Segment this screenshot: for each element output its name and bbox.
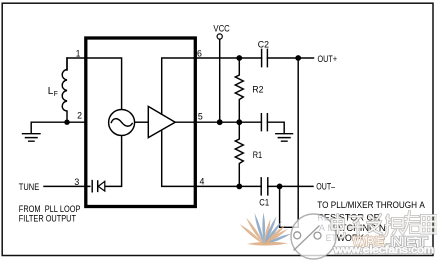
svg-text:VCC: VCC <box>213 24 229 35</box>
watermark fan rays <box>240 212 292 245</box>
wire oscillator out to amp <box>135 121 149 123</box>
wire C2 to OUT+ <box>267 57 313 59</box>
node VCC/pin5 junction <box>217 119 223 125</box>
node OUT+ junction <box>295 55 301 61</box>
IC box U1 <box>86 38 196 207</box>
svg-text:TUNE: TUNE <box>19 182 39 193</box>
wire pin2 <box>31 122 86 133</box>
wire C1 to OUT- <box>268 185 313 187</box>
node OUT- junction <box>277 184 283 190</box>
capacitor C1 plates <box>261 178 268 195</box>
watermark fan base swoosh <box>247 242 288 246</box>
wire pin4 out to C1 <box>195 185 261 187</box>
ground right of bypass cap <box>276 134 293 142</box>
wire bypass cap to ground <box>267 122 284 133</box>
varactor diode plates <box>92 181 98 192</box>
svg-text:www.elecfans.com: www.elecfans.com <box>333 245 434 256</box>
svg-text:2: 2 <box>77 111 82 122</box>
watermark chinese outline glyphs <box>332 212 436 240</box>
capacitor C2 plates <box>262 49 268 66</box>
svg-text:C2: C2 <box>258 39 269 50</box>
node pin2/LF junction <box>64 120 69 125</box>
oscillator sine wave <box>111 119 133 126</box>
oscillator circle <box>109 110 135 136</box>
wire amp out pin5 <box>175 121 195 123</box>
node R1 bottom junction <box>236 184 242 190</box>
svg-text:C1: C1 <box>259 198 269 209</box>
wire pin6 internal feedthrough to pin4 <box>162 58 196 186</box>
svg-text:3: 3 <box>74 177 79 188</box>
bypass capacitor plates <box>261 114 267 131</box>
wire pin6 out to C2 <box>195 57 261 59</box>
resistor R1 <box>235 122 243 186</box>
wire pin3 TUNE <box>44 185 90 187</box>
watermark www.elecfans.com text <box>333 245 434 256</box>
VCC terminal circle <box>217 34 222 39</box>
node R2 top junction <box>236 55 242 61</box>
svg-text:5: 5 <box>198 112 203 123</box>
amplifier triangle <box>148 106 175 137</box>
svg-text:TO PLL/MIXER THROUGH A: TO PLL/MIXER THROUGH A <box>317 200 425 211</box>
watermark WRE.NET text <box>353 234 428 250</box>
svg-text:6: 6 <box>197 49 202 60</box>
wire diode to oscillator bottom <box>105 136 122 187</box>
node R2/R1 pin5 junction <box>236 119 242 125</box>
svg-text:F: F <box>54 89 59 98</box>
wire OUT+ node down <box>297 58 299 227</box>
varactor diode triangle <box>98 181 105 191</box>
wire VCC down to pin5 node <box>219 39 221 122</box>
watermark circle logo <box>291 214 336 259</box>
svg-text:4: 4 <box>200 176 206 187</box>
svg-text:OUT–: OUT– <box>316 182 335 193</box>
svg-text:R2: R2 <box>252 84 263 95</box>
wire pin5 out to bypass cap <box>195 121 261 123</box>
svg-text:OUT+: OUT+ <box>318 54 338 65</box>
wire OUT- node down and right <box>280 186 299 227</box>
svg-text:R1: R1 <box>253 150 262 161</box>
ground left <box>23 134 41 142</box>
svg-text:1: 1 <box>76 48 81 59</box>
svg-text:FILTER OUTPUT: FILTER OUTPUT <box>19 214 76 225</box>
resistor R2 <box>235 58 243 122</box>
wire pin1 to inductor top <box>67 58 122 110</box>
inductor LF <box>62 58 67 122</box>
